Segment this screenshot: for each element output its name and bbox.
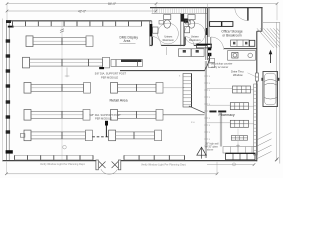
right vertical dimension line [275, 22, 278, 161]
pharmacy centerline [237, 129, 239, 151]
text: DME Display Area [120, 35, 139, 43]
wall stub top-left interior [8, 26, 14, 28]
chase wall hatch ticks [153, 8, 206, 13]
pharmacy island A [233, 86, 251, 93]
drive-thru lane east edge [279, 22, 281, 163]
sink restroom 2 [184, 27, 189, 33]
extension line left [6, 4, 8, 21]
gondola row 2 segment B (dark top unit) [111, 59, 143, 66]
wall: restroom east [206, 8, 208, 60]
wall: bottom exterior west of entry [3, 160, 96, 162]
pharmacy work counter dashed [210, 111, 227, 113]
gondola row 4 segment A [24, 110, 90, 121]
wall: restroom dividing (plumbing) [181, 13, 188, 46]
svg-text:PER MODULE: PER MODULE [95, 117, 112, 121]
leader to island B [207, 104, 231, 106]
hatched ramp area [257, 28, 280, 48]
svg-text:PER MODULE: PER MODULE [101, 75, 118, 79]
svg-text:w/ 12″ glass: w/ 12″ glass [206, 147, 219, 149]
svg-text:Restroom: Restroom [189, 38, 200, 42]
svg-text:Retail Area: Retail Area [110, 99, 129, 103]
text: Retail Area [110, 99, 129, 103]
svg-text:Window: Window [233, 73, 243, 77]
wall: east exterior upper (drive-thru) [256, 31, 258, 73]
extension line at office wall [207, 4, 209, 8]
svg-text:Pharmacy: Pharmacy [219, 113, 235, 117]
door: office top wall [235, 8, 248, 21]
desk office [231, 40, 255, 46]
drive-thru window in east wall [256, 73, 259, 81]
pharmacy counter return [209, 53, 211, 60]
column bubble on grid line [63, 145, 67, 149]
text: pickup counter note [211, 62, 233, 69]
sink restroom 1 [153, 27, 158, 33]
grid tick marker [60, 29, 64, 33]
end display attached to row 5 cap [20, 134, 25, 138]
door restroom 1 [152, 37, 161, 46]
sheet border left edge [2, 19, 4, 162]
extension line mid [155, 4, 157, 14]
leader row3 to pharmacy shelving [163, 87, 184, 89]
second dimension line 42ft [6, 10, 158, 13]
gondola row 1 segment A [26, 36, 93, 47]
gondola row 4 segment B [111, 110, 164, 121]
text: drive thru window [231, 70, 244, 77]
grab bar restroom 2 [186, 21, 191, 25]
svg-text:Verify Window Light Per Planni: Verify Window Light Per Planning Dept. [40, 162, 86, 166]
gondola row 3 segment A [24, 83, 91, 94]
island-to-wall connectors [249, 90, 254, 124]
text: restroom 2 label [189, 35, 200, 42]
shelving: bottom wall west run [15, 155, 94, 159]
centerline tick below row2 [65, 68, 70, 78]
bench/table 1 [179, 49, 192, 57]
pharmacy island B [230, 103, 248, 110]
gondola row 2 segment A [23, 57, 110, 68]
shelving: top wall display row [13, 21, 142, 26]
door: office west [211, 37, 224, 50]
svg-text:5/8″ DIA. SUPPORT POST: 5/8″ DIA. SUPPORT POST [90, 113, 122, 117]
wall: pharmacy west partition with dimension ticks [204, 61, 210, 158]
bottom-right dimension line [207, 163, 255, 166]
restroom 2 turning circle [184, 23, 205, 44]
pharmacy counter diagonal [205, 61, 210, 71]
extension line right [276, 4, 278, 21]
pharmacy diagonal partition [189, 106, 205, 113]
entry jamb east [118, 160, 120, 170]
leader to island C [207, 122, 231, 124]
svg-text:42′-0″: 42′-0″ [78, 9, 87, 13]
bench/table 2 [191, 49, 204, 57]
wall: step to drive-thru wall [257, 30, 262, 32]
gondola row 5 segment B [109, 130, 162, 141]
text: pharmacy SW notes [206, 144, 219, 152]
svg-text:or Breakroom: or Breakroom [222, 33, 242, 37]
wall: restroom plumbing chase inner line [152, 12, 208, 14]
leader to drive-thru window [248, 73, 256, 77]
gondola row 5 segment A [24, 130, 92, 141]
svg-text:5/8″ DIA. SUPPORT POST: 5/8″ DIA. SUPPORT POST [95, 72, 127, 76]
wall stub pharmacy NW [208, 53, 211, 56]
slash tick bottom right [275, 158, 279, 162]
svg-text:84′-0″: 84′-0″ [108, 2, 117, 6]
pharmacy island D [231, 136, 247, 141]
cabinets office north [210, 22, 233, 27]
poche on restroom east wall [206, 28, 208, 35]
pharmacy counter edge vertical [220, 113, 222, 147]
svg-text:Area: Area [124, 39, 131, 43]
hatched area SE exit [258, 133, 272, 159]
svg-text:above: above [207, 150, 214, 152]
svg-text:36″ pickup counter: 36″ pickup counter [211, 62, 233, 66]
toilet restroom 2 [188, 15, 195, 29]
pharmacy dispensing counter upper [223, 147, 257, 153]
leader row4 to pharmacy wall [163, 114, 205, 116]
entry door swing arc [101, 169, 118, 174]
leader to island A [207, 87, 233, 89]
restroom 1 turning circle [158, 23, 179, 44]
wall: restroom west [150, 21, 153, 46]
consult boxes at counter corner [208, 58, 214, 67]
svg-text:36″ high wall: 36″ high wall [206, 144, 219, 146]
drive-thru curb north [263, 21, 280, 23]
wall: east exterior lower [256, 81, 258, 161]
entry door leaf east (X) [112, 162, 119, 169]
drive direction arrow [269, 50, 273, 63]
gondola row 3 segment B [111, 83, 164, 94]
svg-text:Verify Window Light Per Planni: Verify Window Light Per Planning Dept. [141, 162, 187, 166]
wall: top exterior (restroom/office block) [150, 7, 263, 9]
text: support post note (row2) [95, 67, 127, 79]
pharmacy island C [230, 120, 248, 127]
wall: office east exterior [261, 8, 263, 32]
dash-dot leader row5 gap [92, 136, 109, 138]
entry door leaf west (X) [99, 162, 106, 169]
wall: bottom exterior east of entry [121, 160, 257, 162]
column: bottom-left corner [6, 150, 13, 153]
pharmacy east wall shelving [254, 84, 258, 155]
car in drive-thru lane [261, 72, 279, 107]
wall: left exterior with columns [6, 20, 11, 161]
pharmacy dispensing counter lower [226, 153, 255, 160]
toilet restroom 1 [164, 15, 171, 29]
grab bar restroom 1 [159, 21, 164, 25]
wall: restroom south with door openings [150, 44, 208, 46]
centerline tick [236, 144, 240, 148]
counter at restroom SE corner [197, 44, 212, 48]
wall: top exterior (retail) [6, 20, 151, 22]
text: office storage breakroom [221, 30, 242, 38]
top dimension line (overall) [6, 2, 279, 5]
column grid line [61, 21, 63, 159]
pharmacy counter front [120, 70, 205, 72]
wall: office west [208, 8, 209, 37]
text: support post note (row4/5) + post symbol [90, 113, 122, 137]
pickup counter [228, 51, 256, 61]
column at office SW corner [208, 47, 211, 50]
text: restroom 1 label [163, 35, 174, 42]
section marker triangle [197, 147, 206, 158]
svg-text:Restroom: Restroom [163, 38, 174, 42]
queue rail [166, 47, 168, 55]
wall: office south [224, 48, 257, 50]
bottom dimension line [5, 162, 218, 175]
shelving: bottom wall east run [124, 155, 185, 159]
door restroom 2 [185, 37, 194, 46]
entry jamb west [96, 160, 98, 170]
pharmacy mid shelving ladder [183, 74, 192, 108]
